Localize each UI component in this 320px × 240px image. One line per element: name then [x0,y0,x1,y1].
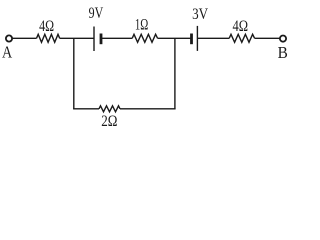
wire R3 to terminal B [255,37,280,39]
svg-text:2Ω: 2Ω [101,113,117,130]
battery 3V long plate [196,26,198,51]
svg-text:4Ω: 4Ω [233,18,249,35]
svg-text:A: A [2,43,12,62]
svg-text:3V: 3V [192,6,208,23]
wire 9V to R2 [101,37,132,39]
battery 3V short plate [190,34,193,45]
bottom wire right of R4 [120,108,176,110]
battery 9V short plate [100,34,103,45]
svg-text:9V: 9V [89,5,104,22]
node 2 vertical wire [174,38,176,109]
wire A to R1 [13,37,37,39]
svg-text:4Ω: 4Ω [39,18,54,35]
terminal A [6,35,12,41]
wire R2 to 3V battery (through node 2) [158,37,192,39]
wire 3V to R3 [197,37,229,39]
node 1 vertical wire [73,38,75,109]
terminal B [280,36,286,42]
resistor R3 4ohm [229,34,254,42]
resistor R1 4ohm [37,34,60,42]
svg-text:1Ω: 1Ω [135,17,148,34]
bottom wire left of R4 [73,108,99,110]
resistor R4 2ohm [99,106,120,112]
svg-text:B: B [278,43,288,62]
resistor R2 1ohm [132,34,157,42]
battery 9V long plate [93,27,95,52]
wire R1 to 9V battery (through node 1) [60,37,94,39]
